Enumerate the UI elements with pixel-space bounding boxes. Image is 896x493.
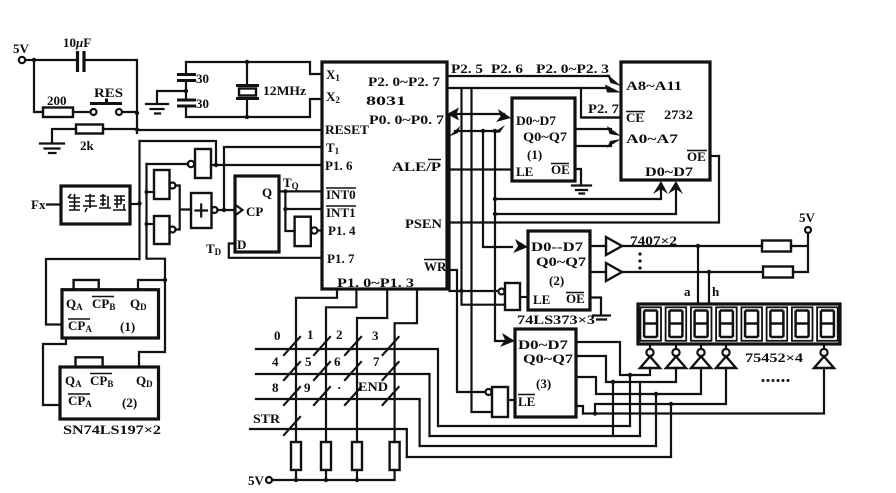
driver Q5 75452 [814, 344, 834, 368]
buffer U9 7407 b [606, 263, 622, 281]
svg-text:OE: OE [551, 162, 570, 177]
node junction V5 top [493, 129, 497, 133]
wire bottom rail to X2 [186, 99, 322, 117]
svg-text:RESET: RESET [325, 122, 369, 137]
wire buffer a out to pullup [622, 245, 762, 247]
wire busC [420, 445, 656, 447]
node junction QD1 [163, 278, 167, 282]
svg-text:(3): (3) [536, 376, 551, 391]
wire branch to gate5 input [285, 209, 294, 231]
node junction crystal top [245, 60, 249, 64]
node junction drv2 [611, 380, 615, 384]
wire A net down to CPA(1) [46, 259, 140, 325]
node junction T1 tap [222, 208, 226, 212]
gate7 LE(3) nand [486, 387, 509, 417]
resistor R1 200 [43, 93, 73, 117]
node junction drv3 [654, 392, 658, 396]
ground symbol G3 [572, 186, 591, 194]
svg-text:OE: OE [566, 291, 585, 306]
key 5 [305, 354, 330, 380]
wire V4 data drop to 373(2) [483, 131, 512, 247]
wire 2k right to RESET node [103, 128, 137, 130]
svg-text:OE: OE [687, 149, 706, 164]
dots ellipsis drivers [762, 379, 790, 382]
svg-text:A8~A11: A8~A11 [626, 78, 682, 93]
svg-text:30: 30 [196, 96, 209, 111]
svg-text:RES: RES [94, 85, 123, 100]
inverter gate2 [154, 170, 176, 199]
wire Q to INT0 [279, 190, 322, 192]
svg-text:1: 1 [307, 327, 314, 342]
wire top rail to X1 [186, 62, 322, 74]
inverter gate1 [188, 149, 211, 178]
key 4 [272, 354, 300, 380]
wire Q3out1 to driver1 [576, 342, 650, 375]
wire caps midpoint to ground [157, 91, 186, 103]
latch U10 74LS373 (3) [515, 329, 576, 417]
svg-text:INT1: INT1 [326, 205, 356, 220]
ground symbol G1 [40, 144, 64, 154]
wire 5V rail [272, 470, 395, 480]
wire P0 lower tap [455, 130, 499, 132]
capacitor C2 30 [177, 62, 209, 86]
wire V5 data drop to 373(3) [495, 131, 505, 341]
arrow into D0-D7 (1) [496, 109, 511, 122]
svg-text:LE: LE [518, 394, 535, 409]
arrow into A0~A7 lower [607, 139, 621, 148]
wire OE(2) to ground [590, 298, 601, 316]
wire Q branch to INT1 [285, 191, 322, 209]
svg-text:WR: WR [424, 259, 447, 274]
node junction gate3 input [145, 222, 149, 226]
node junction rail c1 [294, 478, 298, 482]
flip-flop U2 D-FF [235, 176, 279, 252]
wire capacitor to right corner [85, 60, 137, 133]
resistor R3 pullup [291, 442, 301, 470]
svg-text:Q0~Q7: Q0~Q7 [536, 254, 587, 269]
wire V3 P2.6 drop [472, 88, 493, 412]
wire P1.1 to column2 [326, 289, 356, 442]
svg-text:ALE/P: ALE/P [392, 159, 441, 174]
wire P2.0-P2.3 to A8-A11 [447, 75, 609, 77]
resistor R7 pullup a [762, 241, 791, 252]
svg-text:h: h [712, 284, 720, 299]
svg-text:(2): (2) [122, 395, 137, 410]
counter U3 SN74LS197 (1) [62, 280, 159, 338]
wire drv4 to busD [670, 404, 672, 457]
wire 5V to junction [25, 59, 34, 61]
wire a line down [697, 246, 699, 304]
arrow into A0~A7 upper [607, 126, 621, 136]
svg-text:0: 0 [274, 328, 281, 343]
wire gate7 out to LE3 [508, 399, 515, 401]
display DS1 8x7seg [638, 304, 840, 344]
key 6 [334, 354, 361, 380]
arrow into D(3) [500, 333, 515, 347]
svg-text:(1): (1) [527, 147, 542, 162]
wire busA [438, 425, 630, 427]
wire P1.0 to column1 [296, 289, 337, 442]
svg-text:LE: LE [516, 164, 533, 179]
wire busB [430, 435, 641, 437]
svg-text:P1. 0~P1. 3: P1. 0~P1. 3 [337, 275, 415, 290]
latch U5 74LS373 (1) [512, 98, 575, 181]
key 8 [272, 380, 300, 405]
buffer U8 7407 a [606, 237, 622, 255]
wire S5 to driver5 [583, 368, 824, 414]
wire 2732 data line1 [495, 186, 661, 199]
wire 2k left to ground [52, 129, 76, 143]
wire cascade QA1 to CPA2 [43, 338, 66, 405]
wire gate3 input [147, 223, 155, 225]
key 2 [336, 327, 361, 355]
wire S4 to driver4 [595, 368, 726, 414]
inverter gate3 [154, 216, 176, 244]
wire buffer b out to pullup [622, 271, 763, 273]
svg-text:P0. 0~P0. 7: P0. 0~P0. 7 [369, 112, 445, 127]
svg-text:8031: 8031 [366, 93, 406, 108]
driver Q2 75452 [666, 344, 686, 368]
resistor R5 pullup [352, 442, 362, 470]
wire P1.3 to column4 [395, 289, 417, 442]
wire drv2 to busB [612, 382, 614, 436]
svg-text:P2. 7: P2. 7 [588, 101, 620, 116]
svg-text:8: 8 [272, 380, 279, 395]
key STR [253, 411, 300, 435]
node junction data2 [493, 212, 497, 216]
block 信号调理 signal conditioning [61, 186, 130, 224]
wire gate1 bubble to vertical B [147, 163, 189, 165]
wire OR output to CP [218, 209, 236, 211]
node junction S4/S5 [593, 411, 597, 415]
wire Q3out4 to S5 [576, 406, 583, 414]
svg-text:P1. 6: P1. 6 [325, 158, 353, 173]
wire busB second riser [639, 382, 641, 436]
wire Fx to box [47, 203, 61, 205]
wire gate outputs to OR gate [176, 186, 192, 230]
svg-text:Q: Q [262, 185, 272, 200]
wire P2 second line [447, 87, 605, 89]
wire V1 drop [450, 114, 499, 291]
wire RESET to 8031 [137, 129, 322, 131]
node junction rail c2 [324, 478, 328, 482]
wire WR drop [447, 270, 485, 392]
svg-text:P2. 0~P2. 3: P2. 0~P2. 3 [536, 61, 610, 76]
arrow data1 into 2732 [653, 181, 668, 194]
memory U6 2732 [621, 62, 710, 180]
wire vertical B [139, 164, 165, 367]
svg-text:P1. 7: P1. 7 [327, 251, 355, 266]
svg-text:4: 4 [272, 354, 279, 369]
op-amp U1 8031 box [322, 62, 447, 289]
arrow P0 left [447, 108, 459, 121]
arrow lower-right [493, 125, 505, 133]
counter U4 SN74LS197 (2) [60, 357, 159, 419]
svg-text:CE: CE [626, 110, 644, 125]
wire gate6 out to LE2 [520, 296, 528, 298]
node junction a tap [696, 244, 700, 248]
key 1 [307, 327, 330, 355]
svg-text:6: 6 [334, 354, 341, 369]
node junction gate2 input [145, 190, 149, 194]
resistor R2 2k [76, 125, 103, 154]
key END [358, 379, 399, 405]
wire drv3 to busC [655, 394, 657, 446]
arrow lower-left [449, 126, 460, 137]
node junction drv4 [669, 402, 673, 406]
wire gate5 output to P1.4 [318, 229, 323, 231]
wire OE(1) to ground [575, 169, 581, 185]
wire 5V to pullups [791, 233, 808, 272]
svg-text:D0~D7: D0~D7 [516, 113, 557, 128]
latch U7 74LS373 (2) [528, 231, 590, 310]
svg-text:2: 2 [336, 327, 343, 342]
svg-text:Q0~Q7: Q0~Q7 [523, 129, 568, 144]
node junction rail c3 [355, 478, 359, 482]
wire row 0-3 [256, 349, 438, 426]
svg-text:P2. 0~P2. 7: P2. 0~P2. 7 [368, 74, 441, 89]
wire ALE to LE(1) [447, 168, 512, 170]
svg-text:30: 30 [196, 71, 209, 86]
wire row 8-END [256, 399, 420, 446]
svg-text:D: D [237, 237, 246, 252]
wire Q(1) lower to A0-A7 [575, 145, 611, 147]
crystal Y1 12MHz [236, 62, 306, 117]
arrow into A8~A11 second [605, 85, 621, 93]
ground symbol G2 [146, 104, 168, 114]
arrow into D(2) [513, 239, 528, 253]
svg-text:·: · [337, 380, 341, 395]
wire vertical A Fx net [138, 141, 140, 259]
svg-text:D0--D7: D0--D7 [531, 239, 584, 254]
capacitor C3 30 [177, 82, 209, 117]
wire T1 tap to 8031 [224, 147, 322, 210]
svg-text:PSEN: PSEN [405, 216, 443, 231]
wire V2 P2.5 drop [462, 88, 506, 305]
svg-text:9: 9 [304, 380, 311, 395]
node junction button/vertical [135, 111, 139, 115]
key dot [337, 380, 361, 405]
node junction V4 top [481, 129, 485, 133]
wire 2732 OE out [710, 155, 719, 157]
svg-text:3: 3 [372, 328, 379, 343]
svg-text:(2): (2) [549, 273, 564, 288]
8031 labels right [366, 74, 447, 274]
resistor R8 pullup h [763, 267, 793, 278]
wire P2.7 branch [581, 88, 621, 118]
wire h line down [708, 272, 710, 304]
svg-text:Q0~Q7: Q0~Q7 [523, 351, 574, 366]
svg-text:12MHz: 12MHz [263, 83, 306, 98]
svg-text:Fx: Fx [31, 197, 46, 212]
svg-text:D0~D7: D0~D7 [645, 164, 694, 179]
wire P1.2 to column3 [357, 289, 387, 442]
svg-text:P2. 6: P2. 6 [491, 61, 524, 76]
svg-text:CP: CP [246, 204, 263, 219]
svg-text:P2. 5: P2. 5 [451, 61, 484, 76]
driver Q1 75452 [640, 344, 660, 368]
svg-text:LE: LE [533, 292, 550, 307]
wire gate1 output to P1.6 pin [211, 164, 322, 166]
wire busD [407, 456, 671, 458]
wire P0 bus to 373(1) [454, 113, 504, 115]
resistor R6 pullup [390, 442, 400, 470]
node junction Fx net [137, 201, 141, 205]
wire gate2 input [147, 191, 155, 193]
svg-text:74LS373×3: 74LS373×3 [517, 312, 596, 327]
node junction drv1 [628, 373, 632, 377]
node junction caps mid [184, 89, 188, 93]
svg-text:7: 7 [373, 354, 380, 369]
key 3 [372, 328, 399, 355]
dots between buffers [638, 252, 641, 269]
wire button to vertical [122, 111, 137, 113]
svg-text:(1): (1) [120, 319, 135, 334]
svg-text:5: 5 [305, 354, 312, 369]
wire resistor to button [73, 111, 91, 113]
svg-text:5V: 5V [13, 41, 30, 56]
key 7 [373, 354, 399, 380]
wire drv1 to busA [629, 375, 631, 426]
node 5V keypad terminal [248, 473, 272, 488]
svg-text:STR: STR [253, 411, 281, 426]
driver Q4 75452 [716, 344, 736, 368]
svg-text:D0~D7: D0~D7 [518, 337, 569, 352]
wire D input to P1.7 [229, 244, 322, 258]
svg-text:INT0: INT0 [326, 187, 356, 202]
inverter gate5 [295, 217, 318, 246]
node 5V terminal [13, 41, 30, 63]
node junction A [32, 58, 36, 62]
arrow data2 into 2732 [668, 181, 683, 194]
svg-text:A0~A7: A0~A7 [626, 131, 679, 146]
svg-text:75452×4: 75452×4 [745, 350, 804, 365]
OR gate4 [191, 193, 218, 228]
node junction crystal bottom [245, 115, 249, 119]
node junction h tap [707, 270, 711, 274]
label P2.7 [583, 101, 621, 118]
svg-text:a: a [684, 284, 691, 299]
wire 2732 data line2 [495, 186, 676, 214]
wire Q(1) upper to A0-A7 [575, 128, 611, 130]
wire Q3out2 to driver2 [576, 356, 676, 382]
node junction P1.6 loop [214, 163, 218, 167]
svg-text:P1. 4: P1. 4 [328, 223, 356, 238]
wire top loop to P1.6 [140, 141, 217, 165]
node junction data1 [493, 197, 497, 201]
node junction reset [135, 127, 139, 131]
node junction Q branch [283, 189, 287, 193]
key 0 [274, 328, 300, 355]
wire Q2 to buffer b [590, 271, 606, 273]
svg-text:200: 200 [47, 93, 67, 108]
capacitor C1 10uF [63, 35, 91, 72]
ground symbol G4 [593, 316, 610, 320]
node junction V2 cross [459, 289, 463, 293]
svg-text:10μF: 10μF [63, 35, 91, 50]
svg-text:5V: 5V [799, 210, 816, 225]
wire QD1 loop up [138, 280, 165, 290]
pushbutton RES [90, 85, 123, 115]
arrow into A8~A11 [607, 74, 621, 86]
wire row STR [250, 429, 407, 457]
wire box output [130, 203, 140, 205]
wire junction to capacitor [34, 59, 75, 61]
wire PSEN to 2732 OE [447, 156, 719, 223]
wire row 4-7 [256, 374, 430, 436]
wire left branch down [34, 60, 43, 112]
node junction INT1 branch [283, 207, 287, 211]
svg-text:SN74LS197×2: SN74LS197×2 [63, 422, 161, 437]
svg-text:2k: 2k [80, 138, 95, 153]
wire Q2 to buffer a [590, 245, 606, 247]
svg-text:2732: 2732 [664, 107, 693, 122]
gate6 LE(2) nand [499, 283, 521, 310]
8031 pin labels left [325, 67, 415, 290]
driver Q3 75452 [691, 344, 711, 368]
node 5V display terminal [799, 210, 816, 233]
svg-text:5V: 5V [248, 473, 265, 488]
wire Q3out3 to driver3 [576, 368, 701, 394]
key 9 [304, 380, 330, 405]
svg-text:END: END [358, 379, 388, 394]
resistor R4 pullup [321, 442, 331, 470]
